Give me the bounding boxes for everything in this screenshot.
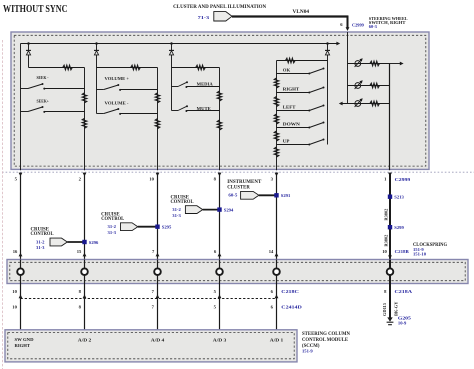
svg-text:LEFT: LEFT [283, 105, 296, 110]
wire group3 left rail [171, 61, 173, 111]
arrow out of switch box at pin 1 [388, 173, 392, 177]
switch DOWN [277, 127, 309, 129]
svg-text:31-3: 31-3 [108, 230, 117, 235]
svg-text:SW GND: SW GND [15, 337, 35, 342]
switch OK [277, 73, 309, 75]
svg-text:71-3: 71-3 [198, 15, 210, 20]
svg-text:SEEK+: SEEK+ [37, 98, 50, 103]
svg-text:10: 10 [12, 289, 17, 294]
steering wheel switch right box [11, 32, 429, 169]
arrow LED row1 right [390, 63, 401, 65]
clockspring terminal 1 [17, 268, 24, 275]
arrow into clockspring [275, 253, 279, 257]
svg-text:VOLUME +: VOLUME + [105, 76, 130, 81]
junction diode column group3 [170, 42, 173, 45]
resistor LED 2 [370, 83, 380, 87]
off-page connector arrow to S291 [241, 191, 259, 199]
svg-text:R3802: R3802 [383, 209, 388, 221]
harness boundary dotted line [2, 171, 474, 173]
resistor group4 ladder 3 [274, 114, 278, 124]
resistor LED 1 [370, 61, 380, 65]
svg-text:A/D 1: A/D 1 [270, 338, 284, 343]
illumination bus wire [21, 43, 337, 45]
wire group2 top row [97, 67, 158, 69]
splice S291 [274, 193, 278, 197]
illumination LED 3 [341, 103, 390, 105]
steering column control module box [5, 330, 297, 362]
arrow into inline connector [156, 294, 160, 298]
svg-text:A/D 4: A/D 4 [151, 338, 165, 343]
wire LED right rail [389, 64, 391, 171]
ground wire GD115 [389, 284, 391, 321]
svg-text:151-9: 151-9 [302, 348, 313, 353]
arrow out of switch box at pin 3 [275, 173, 279, 177]
svg-text:S295: S295 [162, 225, 172, 230]
svg-text:CONTROL MODULE: CONTROL MODULE [302, 338, 348, 343]
svg-text:A/D 3: A/D 3 [213, 338, 227, 343]
svg-text:60-3: 60-3 [369, 24, 378, 29]
resistor group1 rail lower [82, 118, 86, 128]
svg-text:DOWN: DOWN [283, 122, 301, 127]
diode D3 [171, 44, 173, 51]
clockspring terminal 2 [81, 268, 88, 275]
left crop boundary line [1, 40, 3, 369]
switch MEDIA [172, 86, 179, 88]
svg-text:BK-GY: BK-GY [393, 301, 398, 316]
illumination LED 1 [348, 63, 391, 65]
svg-text:CONTROL: CONTROL [31, 232, 54, 237]
wire below clockspring [84, 284, 86, 335]
resistor group3 rail lower [217, 120, 221, 130]
switch LEFT [277, 110, 309, 112]
wire tag to splice S294 [203, 209, 220, 211]
svg-text:MEDIA: MEDIA [197, 81, 214, 86]
svg-text:S291: S291 [281, 193, 291, 198]
resistor group2 top [131, 65, 141, 69]
resistor LED 3 [370, 101, 380, 105]
clockspring terminal 5 [273, 268, 280, 275]
illumination LED 2 [348, 85, 391, 87]
svg-text:VLN04: VLN04 [293, 10, 310, 15]
wire group4 right rail [327, 61, 329, 145]
svg-text:CONTROL: CONTROL [101, 217, 124, 222]
svg-text:C218B: C218B [395, 249, 409, 254]
resistor group4 ladder 2 [274, 97, 278, 107]
svg-text:31-3: 31-3 [36, 245, 45, 250]
off-page connector arrow (illumination feed) [214, 12, 232, 21]
junction diode column group2 [95, 42, 98, 45]
wire below clockspring [20, 284, 22, 335]
svg-text:151-10: 151-10 [413, 252, 427, 257]
svg-text:C2414D: C2414D [281, 304, 302, 309]
svg-text:10: 10 [149, 176, 154, 181]
svg-text:31-3: 31-3 [172, 213, 181, 218]
svg-text:10: 10 [382, 249, 387, 254]
arrow into clockspring [218, 253, 222, 257]
svg-text:CONTROL: CONTROL [171, 200, 194, 205]
svg-text:C2999: C2999 [352, 22, 364, 27]
switch VOLUME- [97, 113, 104, 115]
resistor group4 ladder 5 [274, 147, 278, 157]
wire through clockspring [219, 260, 221, 284]
wire through clockspring [389, 260, 391, 284]
svg-text:SEEK -: SEEK - [37, 75, 49, 80]
resistor group4 ladder 1 [274, 78, 278, 88]
arrow out of switch box at pin 8 [218, 173, 222, 177]
svg-text:60-5: 60-5 [228, 193, 238, 198]
switch MUTE [172, 110, 179, 112]
arrow into clockspring [83, 253, 87, 257]
bus arrow [336, 42, 340, 46]
wire group2 right rail [157, 68, 159, 171]
clockspring terminal 4 [216, 268, 223, 275]
clockspring terminal 3 [154, 268, 161, 275]
svg-text:RIGHT: RIGHT [15, 343, 31, 348]
diode D4 [327, 44, 329, 51]
arrow into inline connector [83, 294, 87, 298]
switch SEEK- [21, 88, 29, 90]
wire tag to splice S296 [67, 241, 84, 243]
svg-text:16: 16 [13, 249, 18, 254]
svg-text:R3802: R3802 [383, 235, 388, 247]
resistor group3 rail upper [217, 91, 221, 101]
off-page connector arrow to S294 [185, 206, 202, 214]
svg-text:WITHOUT SYNC: WITHOUT SYNC [3, 3, 68, 15]
wire through clockspring [157, 260, 159, 284]
junction diode column group1 [27, 42, 30, 45]
wire below clockspring [219, 284, 221, 335]
wire to clockspring [219, 173, 221, 260]
svg-text:CLUSTER AND PANEL ILLUMINATION: CLUSTER AND PANEL ILLUMINATION [173, 5, 267, 10]
off-page connector arrow to S296 [50, 238, 67, 246]
arrow into inline connector [218, 294, 222, 298]
splice S295 [155, 225, 159, 229]
svg-text:S299: S299 [394, 225, 404, 230]
svg-text:C218C: C218C [281, 289, 299, 294]
wire through clockspring [84, 260, 86, 284]
wire below clockspring [157, 284, 159, 335]
svg-text:VOLUME -: VOLUME - [105, 100, 129, 105]
svg-text:31-2: 31-2 [172, 207, 181, 212]
svg-text:RIGHT: RIGHT [283, 87, 299, 92]
svg-text:15: 15 [77, 249, 82, 254]
svg-text:10: 10 [12, 304, 17, 309]
wire group3 top row [172, 67, 220, 69]
splice S213 [388, 195, 392, 199]
wire group4 top row [277, 60, 328, 62]
svg-text:31-2: 31-2 [36, 239, 45, 244]
wire group2 left rail [96, 68, 98, 114]
svg-text:A/D 2: A/D 2 [78, 338, 92, 343]
arrow into inline connector [19, 294, 23, 298]
wire group3 right rail [219, 68, 221, 171]
diode D1 [28, 44, 30, 51]
ground G205 symbol [387, 317, 392, 321]
svg-text:10-9: 10-9 [398, 320, 407, 325]
switch UP [277, 144, 309, 146]
wire through clockspring [20, 260, 22, 284]
off-page connector arrow to S295 [121, 223, 138, 231]
svg-text:UP: UP [283, 139, 290, 144]
svg-text:S294: S294 [224, 208, 234, 213]
resistor group4 top [286, 58, 296, 62]
resistor group3 top [196, 65, 206, 69]
inline connector C2414D dashed line [21, 298, 277, 300]
switch SEEK+ [21, 111, 29, 113]
svg-text:STEERING COLUMN: STEERING COLUMN [302, 332, 351, 337]
svg-text:S213: S213 [394, 195, 404, 200]
svg-text:31-2: 31-2 [108, 224, 117, 229]
svg-text:MUTE: MUTE [197, 106, 211, 111]
wire to clockspring [276, 173, 278, 260]
svg-text:C218A: C218A [395, 289, 413, 294]
switch VOLUME+ [97, 89, 104, 91]
ground rail wire group1 [20, 44, 22, 171]
resistor group2 rail upper [155, 93, 159, 103]
wire to clockspring [84, 173, 86, 260]
wire group1 top row [29, 67, 85, 69]
wire to clockspring [20, 173, 22, 260]
resistor group1 rail upper [82, 93, 86, 103]
wire LED left rail [347, 32, 349, 104]
splice S296 [82, 240, 86, 244]
junction diode column group4 [326, 42, 329, 45]
svg-text:CLUSTER: CLUSTER [227, 185, 250, 190]
svg-text:C2999: C2999 [395, 177, 411, 182]
arrow into clockspring [388, 253, 392, 257]
svg-text:OK: OK [283, 68, 291, 73]
clockspring terminal 6 [387, 268, 394, 275]
wire to clockspring [157, 173, 159, 260]
wire tag to splice S295 [138, 226, 158, 228]
arrow out of switch box at pin 2 [83, 173, 87, 177]
resistor group4 ladder 4 [274, 131, 278, 141]
arrow into steering wheel switch box [346, 27, 350, 31]
resistor group1 top [63, 65, 73, 69]
splice S299 [388, 225, 392, 229]
wire tag to splice S291 [259, 194, 277, 196]
arrow out of switch box at pin 10 [156, 173, 160, 177]
arrow into inline connector [275, 294, 279, 298]
wire to clockspring [389, 173, 391, 260]
svg-text:14: 14 [269, 249, 274, 254]
splice S294 [217, 207, 221, 211]
resistor group2 rail lower [155, 119, 159, 129]
svg-text:S296: S296 [89, 240, 99, 245]
arrow into clockspring [19, 253, 23, 257]
wire through clockspring [276, 260, 278, 284]
wire VLN04 vertical drop [347, 16, 349, 28]
diode D2 [96, 44, 98, 51]
arrow LED row3 left [339, 102, 343, 106]
arrow into clockspring [156, 253, 160, 257]
wire group1 right rail [84, 68, 86, 171]
switch RIGHT [277, 92, 309, 94]
wire group4 left rail [276, 61, 278, 171]
wire below clockspring [276, 284, 278, 335]
svg-text:GD115: GD115 [382, 302, 387, 316]
clockspring band box [7, 260, 468, 284]
wire VLN04 horizontal [232, 15, 348, 17]
arrow out of switch box at pin 5 [19, 173, 23, 177]
